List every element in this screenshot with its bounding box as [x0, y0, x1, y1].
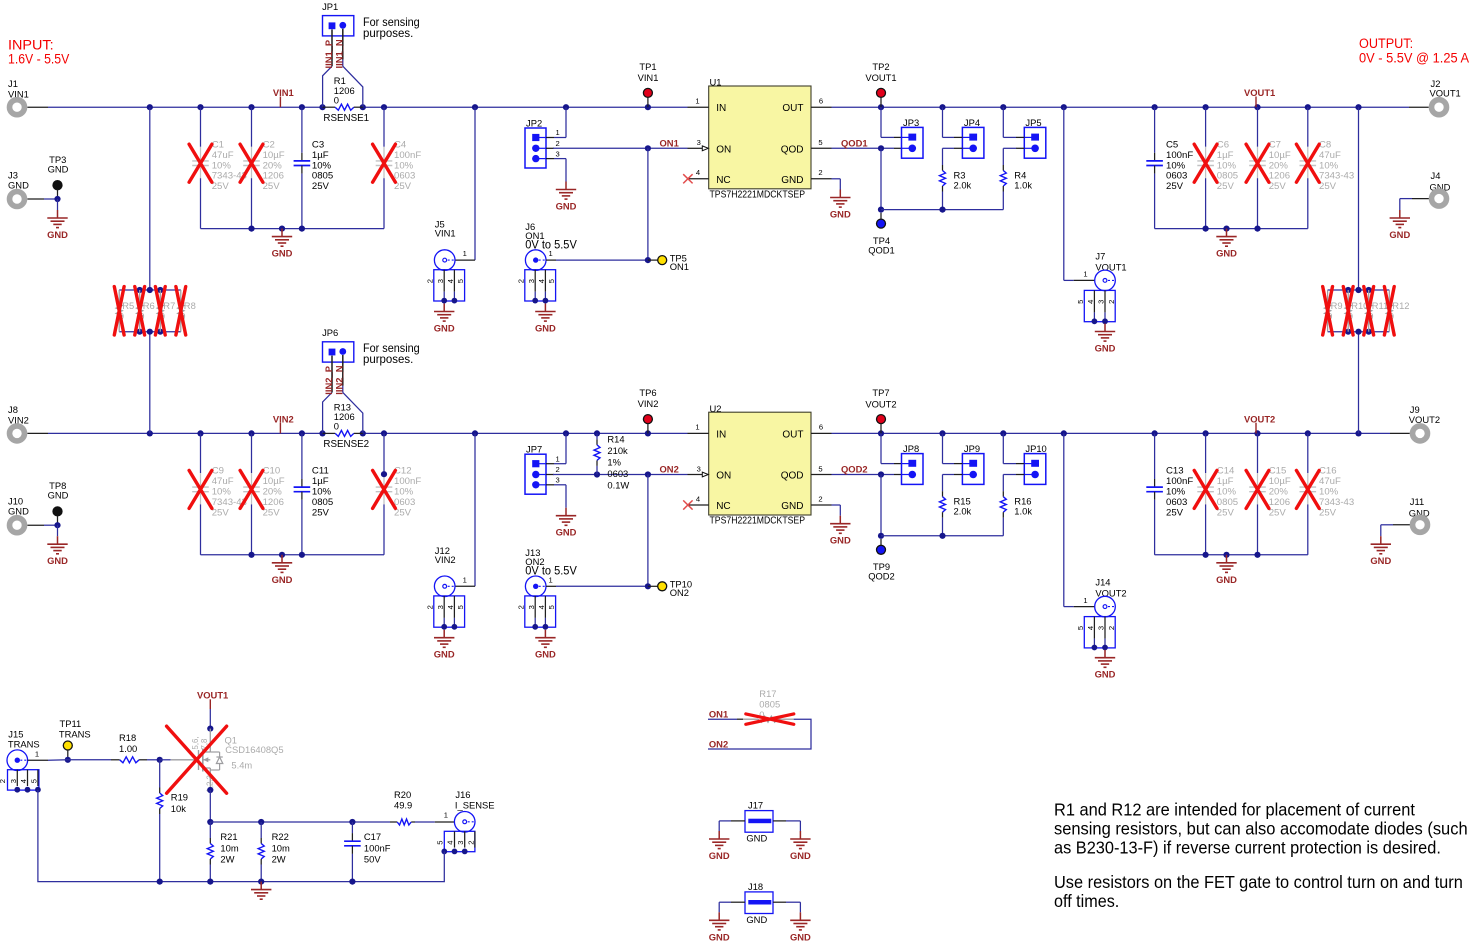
ground — [556, 508, 577, 538]
svg-text:C5: C5 — [1166, 140, 1178, 151]
crossed-out marker C9 — [189, 470, 212, 508]
svg-text:0: 0 — [334, 421, 339, 432]
text for sensing purposes — [363, 15, 420, 40]
pin 1 IN U2 — [688, 423, 709, 434]
svg-text:purposes.: purposes. — [363, 26, 413, 40]
svg-text:purposes.: purposes. — [363, 352, 413, 366]
svg-text:1: 1 — [463, 249, 467, 258]
jumper JP10 — [1003, 433, 1046, 484]
svg-text:5: 5 — [547, 605, 556, 609]
svg-text:25V: 25V — [1269, 181, 1287, 192]
crossed-out marker C16 — [1296, 470, 1319, 508]
svg-text:0603: 0603 — [394, 497, 415, 508]
svg-text:3: 3 — [697, 464, 701, 473]
svg-text:TP2: TP2 — [872, 61, 889, 72]
ground — [790, 912, 811, 942]
svg-text:10%: 10% — [212, 160, 232, 171]
svg-text:5: 5 — [1076, 300, 1085, 304]
svg-text:IIN1_P: IIN1_P — [323, 40, 334, 69]
svg-text:25V: 25V — [312, 181, 330, 192]
svg-text:IIN1_N: IIN1_N — [333, 39, 344, 68]
connector J2 VOUT1 — [1430, 78, 1461, 115]
resistor R10 0 (not populated) — [1345, 290, 1368, 332]
svg-text:C15: C15 — [1269, 466, 1287, 477]
svg-text:4: 4 — [537, 605, 546, 609]
svg-text:10%: 10% — [312, 160, 332, 171]
testpoint TP7 VOUT2 — [865, 387, 896, 433]
svg-text:U1: U1 — [710, 77, 722, 88]
svg-text:5: 5 — [456, 279, 465, 283]
capacitor C15 — [1249, 433, 1291, 554]
connector J16 I_SENSE — [444, 789, 495, 832]
svg-text:1: 1 — [1083, 270, 1087, 279]
testpoint TP2 VOUT1 — [865, 61, 896, 107]
svg-text:JP5: JP5 — [1025, 117, 1041, 128]
svg-text:J8: J8 — [8, 404, 18, 415]
svg-text:QOD1: QOD1 — [868, 245, 895, 256]
resistor R4 1.0k — [1000, 148, 1032, 209]
svg-text:0805: 0805 — [759, 699, 780, 710]
connector J9 VOUT2 — [1409, 404, 1440, 441]
svg-text:C3: C3 — [312, 140, 324, 151]
svg-text:1: 1 — [444, 810, 448, 819]
svg-text:10%: 10% — [1319, 160, 1339, 171]
svg-text:100nF: 100nF — [364, 842, 391, 853]
svg-text:6: 6 — [819, 97, 823, 106]
svg-text:C1: C1 — [212, 140, 224, 151]
connector J11 GND — [1381, 496, 1430, 536]
connector J4 GND — [1400, 170, 1451, 210]
svg-text:GND: GND — [434, 323, 455, 334]
svg-text:4: 4 — [537, 279, 546, 283]
title text OUTPUT range — [1359, 36, 1469, 66]
svg-text:VOUT1: VOUT1 — [1244, 87, 1275, 98]
svg-text:100nF: 100nF — [394, 476, 421, 487]
capacitor C2 — [243, 107, 285, 228]
svg-text:C11: C11 — [312, 466, 329, 477]
connector J6 ON1 — [516, 221, 651, 304]
pin 6 OUT U1 — [811, 97, 832, 108]
resistor R11 0 (not populated) — [1366, 290, 1389, 332]
connector J13 ON2 — [516, 547, 651, 629]
svg-text:GND: GND — [790, 850, 811, 861]
svg-text:2: 2 — [466, 841, 475, 845]
svg-text:GND: GND — [1370, 555, 1391, 566]
ground — [272, 229, 293, 259]
svg-text:R9: R9 — [1331, 300, 1343, 311]
jumper JP5 — [1003, 107, 1046, 158]
svg-text:5,6,: 5,6, — [191, 736, 200, 749]
svg-text:QOD1: QOD1 — [841, 138, 868, 149]
svg-text:25V: 25V — [1319, 507, 1337, 518]
svg-text:JP10: JP10 — [1025, 443, 1046, 454]
ground — [709, 912, 730, 942]
svg-text:1206: 1206 — [263, 171, 284, 182]
svg-text:25V: 25V — [212, 507, 230, 518]
capacitor C1 — [192, 107, 247, 228]
svg-text:ON2: ON2 — [670, 587, 689, 598]
svg-text:25V: 25V — [1166, 181, 1184, 192]
svg-text:ON1: ON1 — [660, 138, 679, 149]
svg-text:10µF: 10µF — [263, 476, 285, 487]
ground — [1095, 650, 1116, 680]
svg-text:C13: C13 — [1166, 466, 1184, 477]
svg-text:4: 4 — [446, 841, 455, 845]
jumper JP2 — [525, 107, 566, 181]
ground — [1389, 210, 1410, 240]
svg-text:VIN1: VIN1 — [435, 228, 456, 239]
svg-text:1.0k: 1.0k — [1014, 506, 1032, 517]
crossed-out marker R10 — [1343, 287, 1353, 335]
svg-text:6: 6 — [819, 423, 823, 432]
svg-text:4: 4 — [446, 279, 455, 283]
svg-text:IIN2_N: IIN2_N — [333, 365, 344, 394]
testpoint TP8 GND — [48, 480, 69, 525]
text for sensing purposes — [363, 341, 420, 366]
svg-text:1206: 1206 — [263, 497, 284, 508]
svg-text:1: 1 — [695, 423, 699, 432]
capacitor C9 — [192, 433, 247, 554]
connector J10 GND — [8, 496, 61, 537]
svg-text:5.4m: 5.4m — [231, 760, 252, 771]
resistor R16 1.0k — [1000, 475, 1032, 536]
svg-text:GND: GND — [746, 833, 767, 844]
svg-text:GND: GND — [8, 179, 29, 190]
pin 1 IN U1 — [688, 97, 709, 108]
svg-text:5: 5 — [435, 841, 444, 845]
svg-text:CSD16408Q5: CSD16408Q5 — [225, 744, 283, 755]
wire QOD1 bottom bus — [881, 207, 1003, 213]
svg-text:JP2: JP2 — [526, 117, 542, 128]
testpoint TP3 GND — [48, 154, 69, 199]
resistor R18 1.00 — [111, 732, 147, 763]
crossed-out marker R17 — [746, 714, 794, 724]
resistor R21 10m 2W — [207, 822, 239, 882]
svg-text:VIN2: VIN2 — [435, 554, 456, 565]
capacitor C13 — [1146, 433, 1193, 554]
svg-text:1µF: 1µF — [312, 476, 329, 487]
svg-text:20%: 20% — [263, 160, 283, 171]
resistor R7 0 (not populated) — [157, 290, 175, 332]
svg-text:0603: 0603 — [1166, 171, 1187, 182]
svg-text:25V: 25V — [212, 181, 230, 192]
svg-text:10k: 10k — [171, 803, 186, 814]
svg-text:GND: GND — [272, 574, 293, 585]
svg-text:TPS7H2221MDCKTSEP: TPS7H2221MDCKTSEP — [710, 516, 806, 527]
jumper J17 GND shunt — [719, 800, 800, 844]
crossed-out marker R9 — [1323, 287, 1333, 335]
wire Q1 source node — [207, 787, 213, 825]
svg-text:GND: GND — [781, 501, 803, 512]
svg-text:VIN1: VIN1 — [638, 72, 659, 83]
pin 3 ON U2 — [688, 464, 709, 477]
pin 3 ON U1 — [688, 138, 709, 151]
svg-text:0805: 0805 — [1217, 171, 1238, 182]
svg-text:J7: J7 — [1095, 251, 1105, 262]
svg-text:47uF: 47uF — [1319, 476, 1341, 487]
svg-text:2: 2 — [818, 168, 822, 177]
wire net VIN2 rail — [48, 430, 688, 436]
pin 4 NC U2 (no connect) — [683, 494, 709, 509]
svg-text:25V: 25V — [263, 507, 281, 518]
svg-text:R8: R8 — [184, 300, 196, 311]
note text about R1/R12 — [1054, 800, 1468, 858]
svg-text:2: 2 — [516, 279, 525, 283]
svg-text:R22: R22 — [272, 831, 289, 842]
svg-text:ON: ON — [716, 144, 731, 155]
resistor R6 0 (not populated) — [137, 290, 155, 332]
svg-text:IN: IN — [716, 103, 726, 114]
wire sense bus — [210, 819, 454, 825]
svg-text:C17: C17 — [364, 831, 381, 842]
svg-text:ON2: ON2 — [660, 464, 679, 475]
net label VOUT1 — [1244, 87, 1275, 107]
crossed-out marker C12 — [373, 470, 396, 508]
svg-text:25V: 25V — [1166, 507, 1184, 518]
svg-text:J18: J18 — [748, 881, 763, 892]
svg-text:50V: 50V — [364, 854, 381, 865]
svg-text:J17: J17 — [748, 800, 763, 811]
resistor R9 0 (not populated) — [1325, 290, 1343, 332]
ground — [830, 190, 851, 220]
svg-text:GND: GND — [830, 209, 851, 220]
svg-text:1: 1 — [695, 97, 699, 106]
svg-text:47uF: 47uF — [212, 150, 234, 161]
svg-text:GND: GND — [1216, 574, 1237, 585]
svg-text:47uF: 47uF — [212, 476, 234, 487]
resistor R20 49.9 — [390, 789, 412, 825]
svg-text:1µF: 1µF — [312, 150, 329, 161]
crossed-out marker C15 — [1246, 470, 1269, 508]
svg-text:2: 2 — [425, 605, 434, 609]
svg-text:QOD2: QOD2 — [868, 571, 895, 582]
connector J15 TRANS — [7, 728, 48, 770]
svg-text:4: 4 — [696, 494, 700, 503]
svg-text:0V - 5.5V @ 1.25 A: 0V - 5.5V @ 1.25 A — [1359, 50, 1469, 66]
svg-text:GND: GND — [48, 490, 69, 501]
jumper JP3 — [902, 117, 924, 158]
svg-text:4: 4 — [1086, 300, 1095, 304]
svg-text:J14: J14 — [1095, 577, 1110, 588]
net label VOUT2 — [1244, 413, 1275, 433]
wire input cap ground bus — [201, 226, 385, 232]
svg-text:R18: R18 — [119, 732, 136, 743]
svg-text:RSENSE1: RSENSE1 — [323, 113, 369, 124]
svg-text:IIN2_P: IIN2_P — [323, 366, 334, 395]
resistor R1 (RSENSE1) — [323, 75, 370, 124]
crossed-out marker R6 — [135, 287, 145, 335]
svg-text:10µF: 10µF — [1269, 150, 1291, 161]
svg-text:3: 3 — [527, 279, 536, 283]
crossed-out marker R12 — [1384, 287, 1394, 335]
resistor R5 0 (not populated) — [116, 290, 134, 332]
svg-text:VOUT1: VOUT1 — [197, 690, 228, 701]
svg-text:GND: GND — [1216, 248, 1237, 259]
node stray junction on C12 riser — [381, 471, 387, 477]
crossed-out marker C4 — [373, 144, 396, 182]
svg-text:4: 4 — [446, 605, 455, 609]
svg-text:R21: R21 — [220, 831, 237, 842]
ground — [434, 304, 455, 334]
svg-text:C10: C10 — [263, 466, 281, 477]
svg-text:0: 0 — [334, 94, 339, 105]
svg-text:GND: GND — [781, 175, 803, 186]
svg-text:3: 3 — [527, 605, 536, 609]
svg-text:25V: 25V — [1269, 507, 1287, 518]
jumper JP9 — [943, 433, 984, 484]
svg-text:ON: ON — [716, 471, 731, 482]
svg-text:10%: 10% — [394, 487, 414, 498]
svg-text:J11: J11 — [1410, 496, 1424, 507]
capacitor C6 — [1197, 107, 1238, 228]
resistor R12 0 (not populated) — [1386, 290, 1409, 332]
capacitor C8 — [1300, 107, 1355, 228]
svg-text:J4: J4 — [1431, 170, 1441, 181]
svg-text:10%: 10% — [1217, 160, 1237, 171]
svg-text:2: 2 — [1107, 626, 1116, 630]
svg-text:J1: J1 — [8, 78, 18, 89]
wire output cap ground bus — [1155, 552, 1308, 558]
wire TRANS gate line — [48, 757, 171, 763]
wire QOD2 bottom bus — [881, 533, 1003, 539]
svg-text:R6: R6 — [143, 300, 155, 311]
svg-text:TP1: TP1 — [639, 61, 656, 72]
ground — [556, 182, 577, 212]
svg-text:GND: GND — [272, 248, 293, 259]
svg-text:J16: J16 — [455, 789, 470, 800]
testpoint TP9 QOD2 — [868, 539, 895, 582]
pin 5 QOD U2 — [811, 464, 832, 474]
svg-text:1.0k: 1.0k — [1014, 180, 1032, 191]
svg-text:20%: 20% — [263, 487, 283, 498]
capacitor C4 — [376, 107, 422, 228]
svg-text:ON1: ON1 — [670, 261, 689, 272]
svg-text:GND: GND — [1095, 343, 1116, 354]
crossed-out marker R7 — [155, 287, 165, 335]
svg-text:1.6V - 5.5V: 1.6V - 5.5V — [8, 52, 70, 68]
svg-text:C8: C8 — [1319, 140, 1331, 151]
crossed-out marker C2 — [240, 144, 263, 182]
svg-text:25V: 25V — [263, 181, 281, 192]
svg-text:1: 1 — [35, 750, 39, 759]
svg-text:0805: 0805 — [312, 171, 333, 182]
svg-text:1206: 1206 — [1269, 171, 1290, 182]
IC U1 TPS7H2221MDCKTSEP load switch — [709, 77, 811, 201]
svg-text:VOUT2: VOUT2 — [1244, 413, 1275, 424]
wire net VOUT2 rail — [832, 430, 1410, 436]
svg-text:10m: 10m — [272, 842, 290, 853]
svg-text:2: 2 — [516, 605, 525, 609]
crossed-out marker C6 — [1194, 144, 1217, 182]
net label VOUT1 (FET drain) — [197, 690, 228, 732]
testpoint TP11 TRANS — [59, 718, 91, 763]
svg-text:GND: GND — [1389, 229, 1410, 240]
svg-text:1µF: 1µF — [1217, 150, 1234, 161]
svg-text:2: 2 — [425, 279, 434, 283]
svg-text:R12: R12 — [1392, 300, 1409, 311]
ground — [709, 831, 730, 861]
capacitor C14 — [1197, 433, 1238, 554]
svg-text:10%: 10% — [312, 487, 332, 498]
svg-text:1: 1 — [463, 575, 467, 584]
testpoint TP4 QOD1 — [868, 213, 895, 256]
connector J7 VOUT1 — [1064, 107, 1127, 324]
svg-text:4: 4 — [696, 168, 700, 177]
capacitor C3 — [294, 107, 334, 228]
svg-text:100nF: 100nF — [394, 150, 421, 161]
crossed-out marker C1 — [189, 144, 212, 182]
svg-text:VOUT2: VOUT2 — [1409, 414, 1440, 425]
ground — [251, 882, 271, 900]
crossed-out marker C14 — [1194, 470, 1217, 508]
capacitor C5 — [1146, 107, 1193, 228]
wire net ON2 — [553, 471, 688, 586]
svg-text:3: 3 — [436, 279, 445, 283]
svg-text:R1 and R12 are intended for pl: R1 and R12 are intended for placement of… — [1054, 800, 1415, 820]
svg-text:I_SENSE: I_SENSE — [455, 800, 495, 811]
svg-text:GND: GND — [556, 201, 577, 212]
testpoint TP1 VIN1 — [638, 61, 659, 107]
svg-text:4: 4 — [1086, 626, 1095, 630]
svg-text:TP6: TP6 — [639, 387, 656, 398]
svg-text:47uF: 47uF — [1319, 150, 1341, 161]
svg-text:R5: R5 — [122, 300, 134, 311]
svg-text:GND: GND — [535, 323, 556, 334]
svg-text:QOD: QOD — [781, 144, 804, 155]
svg-text:Use resistors on the FET gate: Use resistors on the FET gate to control… — [1054, 872, 1463, 892]
wire net QOD1 — [832, 107, 902, 213]
svg-text:GND: GND — [434, 649, 455, 660]
capacitor C16 — [1300, 433, 1355, 554]
crossed-out marker C8 — [1296, 144, 1319, 182]
svg-text:C6: C6 — [1217, 140, 1229, 151]
connector J1 VIN1 — [8, 78, 48, 115]
wire net ON1 — [553, 145, 688, 260]
svg-text:C14: C14 — [1217, 466, 1235, 477]
svg-text:10µF: 10µF — [263, 150, 285, 161]
svg-text:RSENSE2: RSENSE2 — [323, 439, 369, 450]
capacitor C11 — [294, 433, 334, 554]
ground — [1095, 324, 1116, 354]
header J16 shield pins — [435, 831, 475, 854]
svg-text:5: 5 — [30, 779, 39, 783]
title text INPUT range — [8, 37, 70, 67]
svg-text:10m: 10m — [220, 842, 238, 853]
svg-text:2: 2 — [556, 139, 560, 148]
svg-text:GND: GND — [830, 535, 851, 546]
ground — [47, 536, 68, 566]
svg-text:VOUT1: VOUT1 — [865, 72, 896, 83]
svg-text:R19: R19 — [171, 791, 188, 802]
svg-text:25V: 25V — [1217, 181, 1235, 192]
resistor R14 210k — [594, 430, 630, 490]
svg-text:sensing resistors, but can als: sensing resistors, but can also accomoda… — [1054, 819, 1468, 839]
svg-text:10%: 10% — [1166, 487, 1186, 498]
svg-text:C9: C9 — [212, 466, 224, 477]
svg-text:TP7: TP7 — [872, 387, 889, 398]
svg-text:5: 5 — [456, 605, 465, 609]
svg-text:GND: GND — [47, 555, 68, 566]
crossed-out marker R11 — [1364, 287, 1374, 335]
ground — [535, 630, 556, 660]
svg-text:10%: 10% — [212, 487, 232, 498]
svg-text:OUT: OUT — [782, 429, 803, 440]
jumper JP1 — [322, 1, 363, 107]
svg-text:ON2: ON2 — [709, 738, 728, 749]
svg-text:TRANS: TRANS — [8, 738, 40, 749]
svg-text:TPS7H2221MDCKTSEP: TPS7H2221MDCKTSEP — [710, 190, 806, 201]
svg-text:GND: GND — [709, 850, 730, 861]
